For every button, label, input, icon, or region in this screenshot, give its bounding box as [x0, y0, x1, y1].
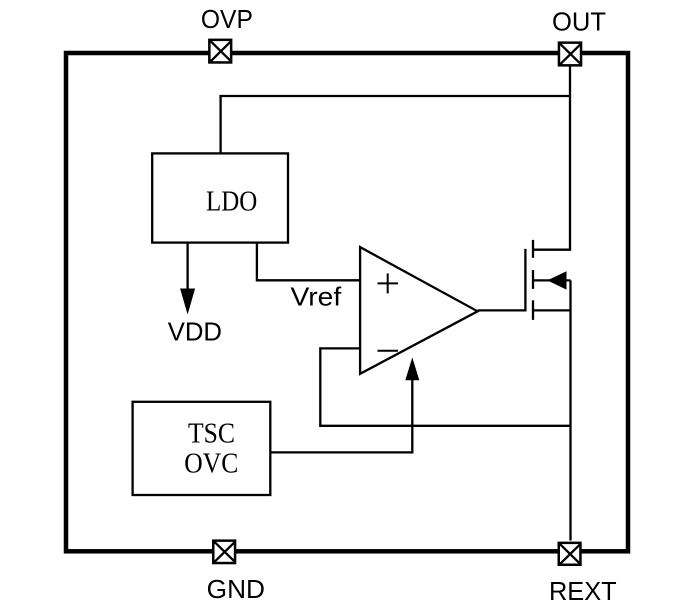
svg-text:LDO: LDO: [206, 187, 257, 218]
pin OVP: [209, 40, 231, 63]
op-amp - input symbol: [378, 350, 399, 352]
op-amp + input symbol: [378, 273, 399, 293]
wire: drain of Q1: [533, 249, 571, 251]
wire: body of Q1: [533, 279, 571, 281]
svg-text:TSC: TSC: [188, 419, 235, 450]
arrowhead into op-amp from TSC OVC: [405, 357, 419, 380]
body arrow of Q1: [547, 271, 566, 289]
wire: Vref from LDO to op-amp + input: [257, 243, 360, 281]
op-amp U1: [360, 247, 478, 374]
block LDO: [152, 153, 288, 242]
wire: op-amp output to gate of Q1: [478, 249, 526, 311]
block TSC OVC: [133, 402, 271, 495]
wire: LDO top to OUT net: [221, 96, 570, 153]
VDD arrowhead: [180, 289, 195, 315]
pin GND: [213, 541, 235, 563]
svg-text:GND: GND: [207, 574, 265, 604]
wire: TSC OVC output to op-amp: [270, 378, 412, 452]
pin REXT: [559, 543, 581, 565]
svg-text:Vref: Vref: [291, 281, 343, 311]
svg-text:OVP: OVP: [201, 4, 253, 34]
svg-text:OUT: OUT: [552, 7, 606, 37]
wire: source net down to REXT pin: [569, 280, 571, 540]
svg-text:VDD: VDD: [168, 317, 222, 347]
wire: OUT pin down to drain node: [569, 67, 571, 250]
svg-text:REXT: REXT: [549, 576, 617, 606]
wire: op-amp - input feedback to REXT net: [320, 348, 570, 425]
wire: source of Q1: [533, 309, 571, 311]
svg-text:OVC: OVC: [184, 449, 238, 480]
transistor Q1 channel segments: [532, 240, 534, 320]
chip boundary: [66, 53, 628, 551]
pin OUT: [559, 43, 581, 66]
wire: VDD output from LDO: [186, 243, 188, 292]
